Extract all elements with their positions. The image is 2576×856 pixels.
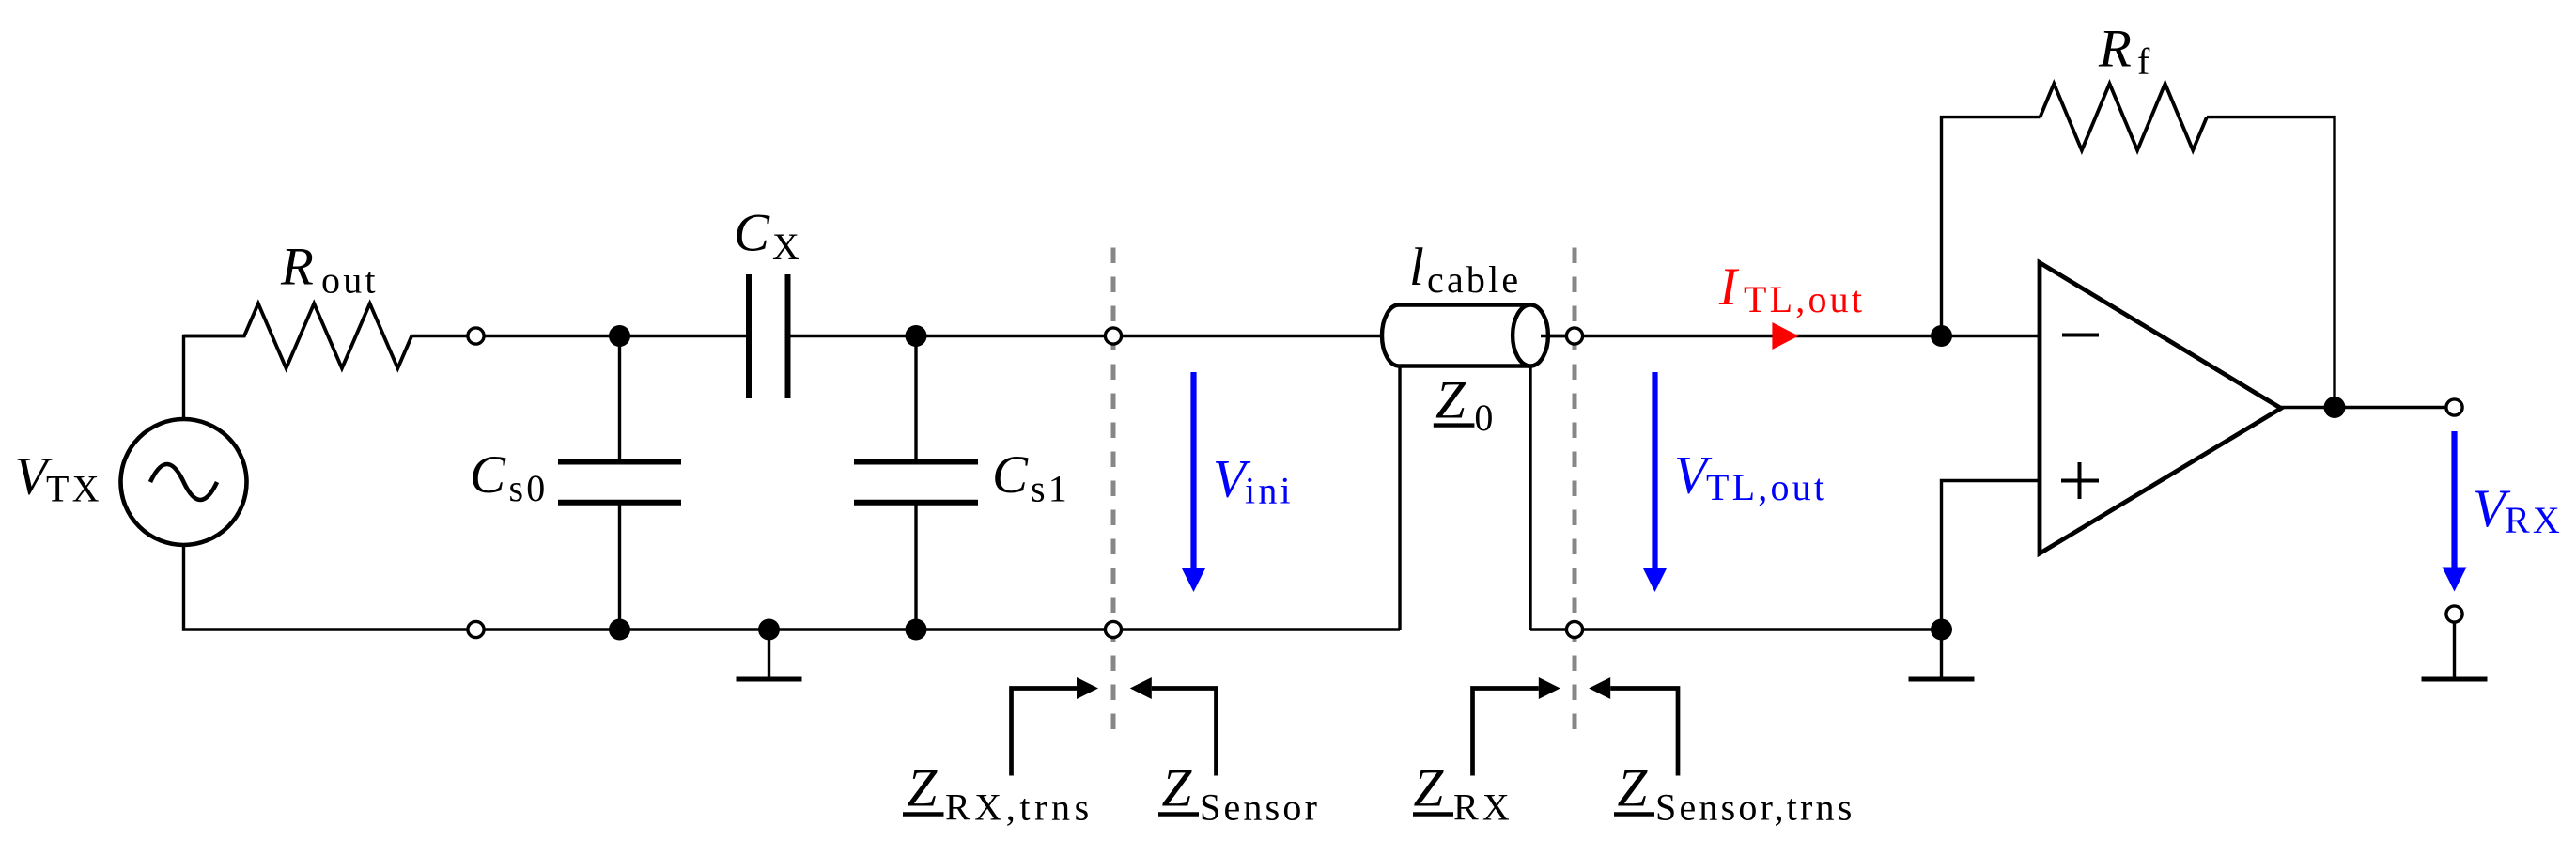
svg-text:ini: ini bbox=[1245, 470, 1294, 512]
svg-text:C: C bbox=[470, 445, 506, 505]
svg-text:TX: TX bbox=[46, 467, 102, 509]
svg-text:Z: Z bbox=[1435, 371, 1466, 430]
svg-text:X: X bbox=[772, 226, 802, 268]
svg-text:R: R bbox=[2098, 20, 2132, 79]
svg-text:Sensor,trns: Sensor,trns bbox=[1655, 786, 1855, 829]
svg-text:Z: Z bbox=[1618, 758, 1649, 817]
svg-text:l: l bbox=[1409, 238, 1424, 297]
svg-text:Z: Z bbox=[1162, 758, 1193, 817]
svg-text:R: R bbox=[280, 238, 314, 297]
svg-text:0: 0 bbox=[1474, 397, 1496, 439]
svg-text:s1: s1 bbox=[1031, 468, 1070, 510]
svg-text:C: C bbox=[734, 204, 770, 263]
svg-text:s0: s0 bbox=[509, 467, 549, 509]
svg-text:I: I bbox=[1718, 257, 1740, 317]
svg-text:C: C bbox=[992, 445, 1029, 505]
svg-text:RX: RX bbox=[2505, 499, 2563, 541]
svg-text:out: out bbox=[321, 259, 379, 302]
svg-text:TL,out: TL,out bbox=[1744, 278, 1865, 320]
svg-text:Z: Z bbox=[1414, 758, 1445, 817]
svg-text:Sensor: Sensor bbox=[1200, 786, 1320, 829]
svg-text:Z: Z bbox=[908, 758, 939, 817]
svg-text:RX: RX bbox=[1453, 786, 1513, 829]
svg-text:RX,trns: RX,trns bbox=[945, 786, 1094, 829]
svg-text:TL,out: TL,out bbox=[1706, 466, 1827, 508]
svg-text:cable: cable bbox=[1427, 258, 1521, 301]
svg-text:f: f bbox=[2137, 40, 2153, 83]
